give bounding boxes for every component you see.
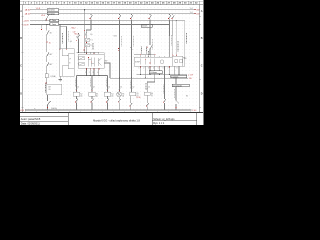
ground under coil (59, 76, 62, 82)
frame: top edge line (20, 0, 203, 2)
svg-text:7: 7 (168, 68, 169, 70)
svg-text:L.21/9›: L.21/9› (23, 21, 30, 23)
svg-text:S21: S21 (114, 36, 117, 38)
svg-text:1Z: 1Z (108, 87, 110, 89)
junction on L1 at x84.7 (84, 9, 85, 10)
IMMO box (47, 84, 62, 95)
tap on L3 at x176.3 (176, 20, 177, 21)
svg-text:K6: K6 (151, 93, 153, 95)
lamp H1 (117, 92, 122, 97)
svg-text:15: 15 (49, 42, 51, 44)
K5 pin to bus (130, 96, 133, 110)
title block divider far right (196, 113, 198, 126)
title block top line (20, 112, 203, 114)
wire tag beside IMMO feed (45, 84, 47, 93)
svg-text:C: C (201, 65, 203, 68)
bottom bus (25, 109, 192, 111)
short stubs above M8 right half (159, 56, 161, 58)
svg-text:1Z: 1Z (120, 87, 122, 89)
T1 inner box (68, 54, 74, 69)
svg-text:L.11/9›: L.11/9› (23, 24, 30, 26)
row ticks left (21, 16, 23, 107)
small box on M7 top right (99, 53, 105, 57)
lamp pin to bus (118, 97, 121, 110)
T1 pins (68, 55, 69, 56)
K2 pin to bus (75, 96, 78, 110)
svg-text:4: 4 (153, 68, 154, 70)
svg-text:L2-K: L2-K (41, 15, 46, 17)
title block left row lines (20, 116, 68, 118)
cluster vertical v2 x86.4 (85, 41, 87, 43)
M7 transistor (98, 58, 102, 66)
title block divider left (67, 113, 69, 126)
M7 inner box1 (79, 57, 85, 60)
sensor wire x78.5 (77, 33, 80, 52)
K6 pin to bus (146, 95, 149, 110)
frame: left border (22, 5, 24, 113)
relay coil K4 (104, 92, 110, 96)
svg-text:3: 3 (93, 72, 94, 74)
title block right row line (152, 120, 197, 122)
tiny labels above coils (77, 87, 150, 89)
svg-text:3: 3 (148, 68, 149, 70)
svg-text:K2: K2 (80, 93, 82, 95)
bus line L4 (30, 23, 170, 25)
svg-text:B: B (20, 37, 22, 40)
svg-text:S5: S5 (186, 96, 188, 98)
svg-text:1 (25A): 1 (25A) (50, 75, 56, 78)
K6 feed elbow (147, 82, 155, 92)
svg-text:1 0.5mm: 1 0.5mm (150, 72, 157, 74)
bottom ruler ticks (25, 111, 190, 112)
svg-text:Rys: 1 z 1: Rys: 1 z 1 (153, 122, 165, 125)
relay coil K6 (144, 92, 150, 95)
svg-text:a 1.8›: a 1.8› (188, 74, 193, 76)
svg-text:H1: H1 (122, 93, 124, 95)
frame: right border (199, 5, 201, 113)
switch S2 at x119.5 (118, 14, 121, 92)
svg-text:K5: K5 (137, 93, 139, 95)
svg-text:5: 5 (158, 68, 159, 70)
device square (180, 59, 183, 62)
svg-text:A: A (201, 10, 203, 13)
svg-text:1.8›: 1.8› (189, 78, 193, 80)
M8 inner ticks (140, 59, 155, 65)
bus line L3 end turn down (184, 21, 186, 58)
svg-text:L1-K: L1-K (36, 8, 41, 10)
wire elbow S1 to cluster (86, 30, 91, 38)
switch S3 at x131.5 (130, 14, 133, 79)
pin ticks above coils (76, 88, 148, 89)
svg-text:1Z: 1Z (133, 87, 135, 89)
svg-text:1Z: 1Z (77, 87, 79, 89)
svg-text:30: 30 (50, 32, 52, 34)
switch S1 at x91 (90, 14, 93, 30)
T1 internal wire (62, 49, 68, 77)
svg-text:1 0.5mm: 1 0.5mm (171, 76, 178, 78)
svg-text:1 1mm: 1 1mm (50, 20, 56, 22)
svg-text:1.30›: 1.30› (192, 110, 197, 112)
M7 inner box2 (79, 63, 85, 66)
row letters right (201, 10, 203, 95)
ignition switch chain x46.8 (47, 24, 49, 84)
fuse F1 (45, 74, 48, 78)
svg-text:1A 15›: 1A 15› (25, 13, 31, 16)
drop from L4 at x60 (59, 24, 60, 25)
svg-text:1P: 1P (69, 58, 71, 60)
svg-text:1.4: 1.4 (190, 12, 193, 14)
relay coil K5 (130, 92, 136, 96)
cable spec box line4 right (141, 25, 152, 28)
feed to spec box from rail2 (175, 78, 177, 84)
K5 feed from rail2 (131, 78, 133, 92)
relay coil K3 (89, 92, 95, 96)
svg-text:Schem: el_123.sps: Schem: el_123.sps (153, 118, 175, 121)
jumper wire y26.3 (60, 25, 67, 27)
svg-text:T.2: T.2 (90, 45, 92, 47)
svg-text:M4.2: M4.2 (72, 28, 76, 30)
svg-text:8: 8 (177, 68, 178, 70)
small box B2 (85, 44, 89, 47)
contact K4a at x150 (150, 45, 152, 55)
M7 bottom pins (87, 68, 99, 75)
K3 pin to bus (91, 96, 94, 110)
ruler numbers (25, 2, 198, 5)
svg-text:Data: 02/09/2011: Data: 02/09/2011 (21, 122, 41, 125)
cluster vertical v1 x84.7 contact (85, 32, 87, 36)
svg-text:M1.2: M1.2 (75, 33, 79, 35)
bus line L3 (30, 20, 185, 22)
stub under L4 (41, 24, 43, 28)
cable spec box right bottom (172, 84, 189, 87)
svg-text:1 2.5mm: 1 2.5mm (48, 13, 55, 15)
switch below IMMO (48, 95, 51, 110)
svg-text:Autor: pawel72n5: Autor: pawel72n5 (21, 118, 41, 121)
cable spec box rail1 (149, 71, 162, 74)
M7 inner pins (88, 58, 94, 67)
upper rail y52.3 (77, 51, 99, 53)
K4 pin to bus (106, 96, 109, 110)
svg-text:/15›: /15› (196, 14, 200, 16)
svg-text:4: 4 (97, 72, 98, 74)
cable spec box line4 (50, 23, 59, 26)
svg-text:6: 6 (163, 68, 164, 70)
contact x164.5 to bus (163, 99, 166, 110)
svg-text:/30›: /30› (196, 10, 200, 12)
svg-text:1 1mm: 1 1mm (142, 26, 148, 28)
paper sheet (20, 0, 204, 125)
svg-text:1Z: 1Z (93, 87, 95, 89)
cable spec box line1 (47, 9, 59, 12)
svg-text:1.4: 1.4 (190, 8, 193, 10)
svg-text:Mazda 6 GG - uklad zaplonowy: Mazda 6 GG - uklad zaplonowy silnika 1.8 (93, 119, 140, 122)
contact x176 to bus (176, 87, 179, 110)
row ticks right (199, 16, 201, 107)
svg-text:T.1: T.1 (90, 40, 92, 42)
M8 motor circle (160, 60, 164, 64)
svg-text:1Z-30: 1Z-30 (136, 97, 140, 99)
device circle (174, 59, 178, 63)
ruler ticks (23, 1, 199, 4)
svg-text:2: 2 (143, 68, 144, 70)
svg-text:1 2.5mm: 1 2.5mm (48, 10, 55, 12)
top pins rail for M8 (134, 54, 155, 56)
block M8 (134, 57, 184, 66)
wire x66.5 down (66, 26, 68, 48)
svg-text:M9: M9 (184, 58, 187, 60)
svg-text:2: 2 (89, 72, 90, 74)
svg-text:1 1mm: 1 1mm (50, 24, 56, 26)
svg-text:(MASA): (MASA) (51, 107, 57, 110)
cable spec box line3 (50, 19, 59, 22)
connector marks on x131.5 (129, 46, 132, 49)
pin numbers under M8 (139, 68, 178, 70)
switch S6 at x172.8 (172, 14, 175, 56)
svg-text:C: C (20, 65, 22, 68)
switch S5 at x169.5 (168, 14, 171, 58)
wire name tags (vertical text smudges) (62, 31, 186, 99)
ignition module T1 box (59, 49, 74, 77)
coil feed x107.5 (107, 75, 109, 92)
left coil rail y75.4 (77, 74, 108, 76)
M7 side pin (104, 63, 110, 78)
row letters left (20, 10, 22, 95)
svg-text:K4: K4 (111, 93, 113, 95)
svg-text:1A 30›: 1A 30› (25, 9, 31, 12)
bus line L2 (15) (30, 13, 196, 15)
device sub-box (172, 56, 182, 66)
svg-text:D: D (20, 93, 22, 96)
svg-text:1: 1 (85, 72, 86, 74)
svg-text:30: 30 (76, 37, 78, 39)
svg-text:1Z: 1Z (148, 87, 150, 89)
coil feed x76.5 (76, 75, 78, 92)
ECU block M7 (78, 54, 104, 68)
small box B1 (85, 38, 89, 41)
svg-text:A: A (20, 10, 22, 13)
wire drop x84.7 (84, 10, 86, 53)
pin numbers under M7 (85, 72, 98, 74)
cable spec box rail2 (171, 75, 187, 78)
coil feed x92 (91, 75, 93, 92)
wire jog from L3 to L2 (46, 14, 50, 21)
title block divider right (151, 113, 153, 126)
svg-text:B: B (201, 37, 203, 40)
svg-text:1 0.5mm B: 1 0.5mm B (173, 85, 182, 87)
frame: top ruler line (20, 4, 203, 6)
relay coil K2 (73, 92, 79, 96)
cable spec box line2 (47, 12, 59, 15)
svg-text:1: 1 (139, 68, 140, 70)
bus left tick (24, 109, 26, 111)
svg-text:K3: K3 (96, 93, 98, 95)
bus line L1 (30) (30, 9, 196, 11)
switch S4 at x150 (149, 14, 152, 45)
rail1 y74.6 (137, 74, 188, 76)
M8 bottom pins (140, 66, 179, 99)
svg-text:KOMP: KOMP (135, 62, 141, 64)
rail2 y78.1 (110, 77, 188, 79)
svg-text:D: D (201, 93, 203, 96)
bottom black line (20, 124, 204, 127)
M7 top pins (87, 52, 99, 54)
svg-text:M7: M7 (105, 61, 108, 63)
